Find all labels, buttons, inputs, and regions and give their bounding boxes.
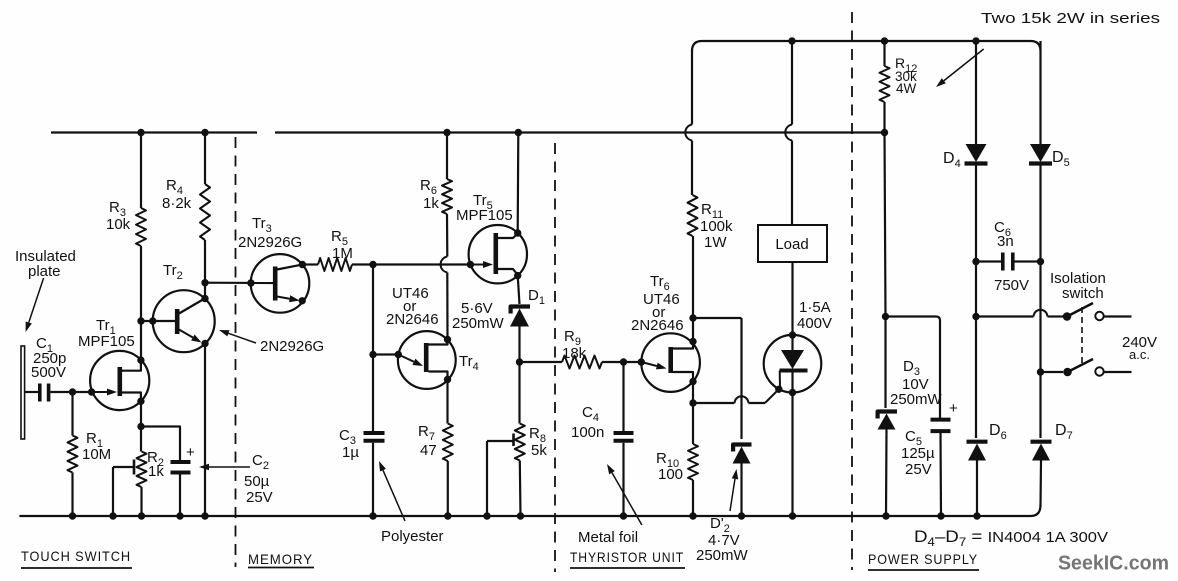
svg-text:50µ: 50µ: [244, 473, 270, 490]
svg-text:100n: 100n: [571, 424, 604, 441]
svg-text:100k: 100k: [700, 218, 733, 235]
svg-text:250mW: 250mW: [890, 391, 943, 408]
svg-text:750V: 750V: [994, 277, 1029, 294]
svg-text:1k: 1k: [423, 195, 439, 212]
svg-text:10M: 10M: [82, 446, 111, 463]
svg-text:Two 15k 2W in series: Two 15k 2W in series: [981, 10, 1160, 27]
svg-text:250mW: 250mW: [696, 547, 749, 564]
svg-text:8·2k: 8·2k: [162, 195, 192, 212]
svg-text:3n: 3n: [997, 233, 1014, 250]
svg-text:2N2926G: 2N2926G: [260, 338, 324, 355]
svg-text:2N2926G: 2N2926G: [238, 234, 302, 251]
svg-text:Load: Load: [775, 236, 808, 253]
svg-text:+: +: [949, 400, 958, 417]
svg-text:MPF105: MPF105: [78, 333, 135, 350]
svg-text:a.c.: a.c.: [1129, 347, 1150, 362]
svg-text:500V: 500V: [31, 364, 66, 381]
svg-text:10k: 10k: [106, 216, 131, 233]
svg-text:1M: 1M: [332, 245, 353, 262]
svg-text:POWER SUPPLY: POWER SUPPLY: [868, 551, 978, 567]
svg-text:SeekIC.com: SeekIC.com: [1058, 552, 1169, 575]
svg-text:+: +: [186, 444, 195, 461]
svg-text:250mW: 250mW: [452, 315, 505, 332]
svg-text:25V: 25V: [905, 461, 932, 478]
svg-text:2N2646: 2N2646: [631, 317, 684, 334]
svg-text:4W: 4W: [896, 81, 917, 96]
svg-text:100: 100: [658, 466, 683, 483]
svg-text:1W: 1W: [704, 234, 727, 251]
svg-text:D4–D7 = IN4004 1A 300V: D4–D7 = IN4004 1A 300V: [914, 527, 1108, 549]
svg-text:2N2646: 2N2646: [386, 311, 439, 328]
svg-text:5k: 5k: [531, 442, 547, 459]
svg-text:125µ: 125µ: [901, 445, 935, 462]
svg-text:MEMORY: MEMORY: [248, 551, 313, 567]
svg-text:MPF105: MPF105: [456, 207, 513, 224]
svg-text:25V: 25V: [246, 489, 273, 506]
svg-text:1·5A: 1·5A: [799, 299, 831, 316]
svg-text:switch: switch: [1062, 285, 1104, 302]
svg-text:Polyester: Polyester: [381, 528, 444, 545]
svg-text:18k: 18k: [562, 345, 587, 362]
svg-text:1µ: 1µ: [342, 444, 359, 461]
svg-text:47: 47: [420, 442, 437, 459]
svg-text:Metal foil: Metal foil: [578, 529, 638, 546]
svg-text:THYRISTOR UNIT: THYRISTOR UNIT: [570, 549, 684, 565]
svg-text:400V: 400V: [797, 315, 832, 332]
svg-text:plate: plate: [28, 263, 61, 280]
svg-text:1k: 1k: [148, 463, 164, 480]
svg-text:TOUCH SWITCH: TOUCH SWITCH: [21, 548, 131, 564]
